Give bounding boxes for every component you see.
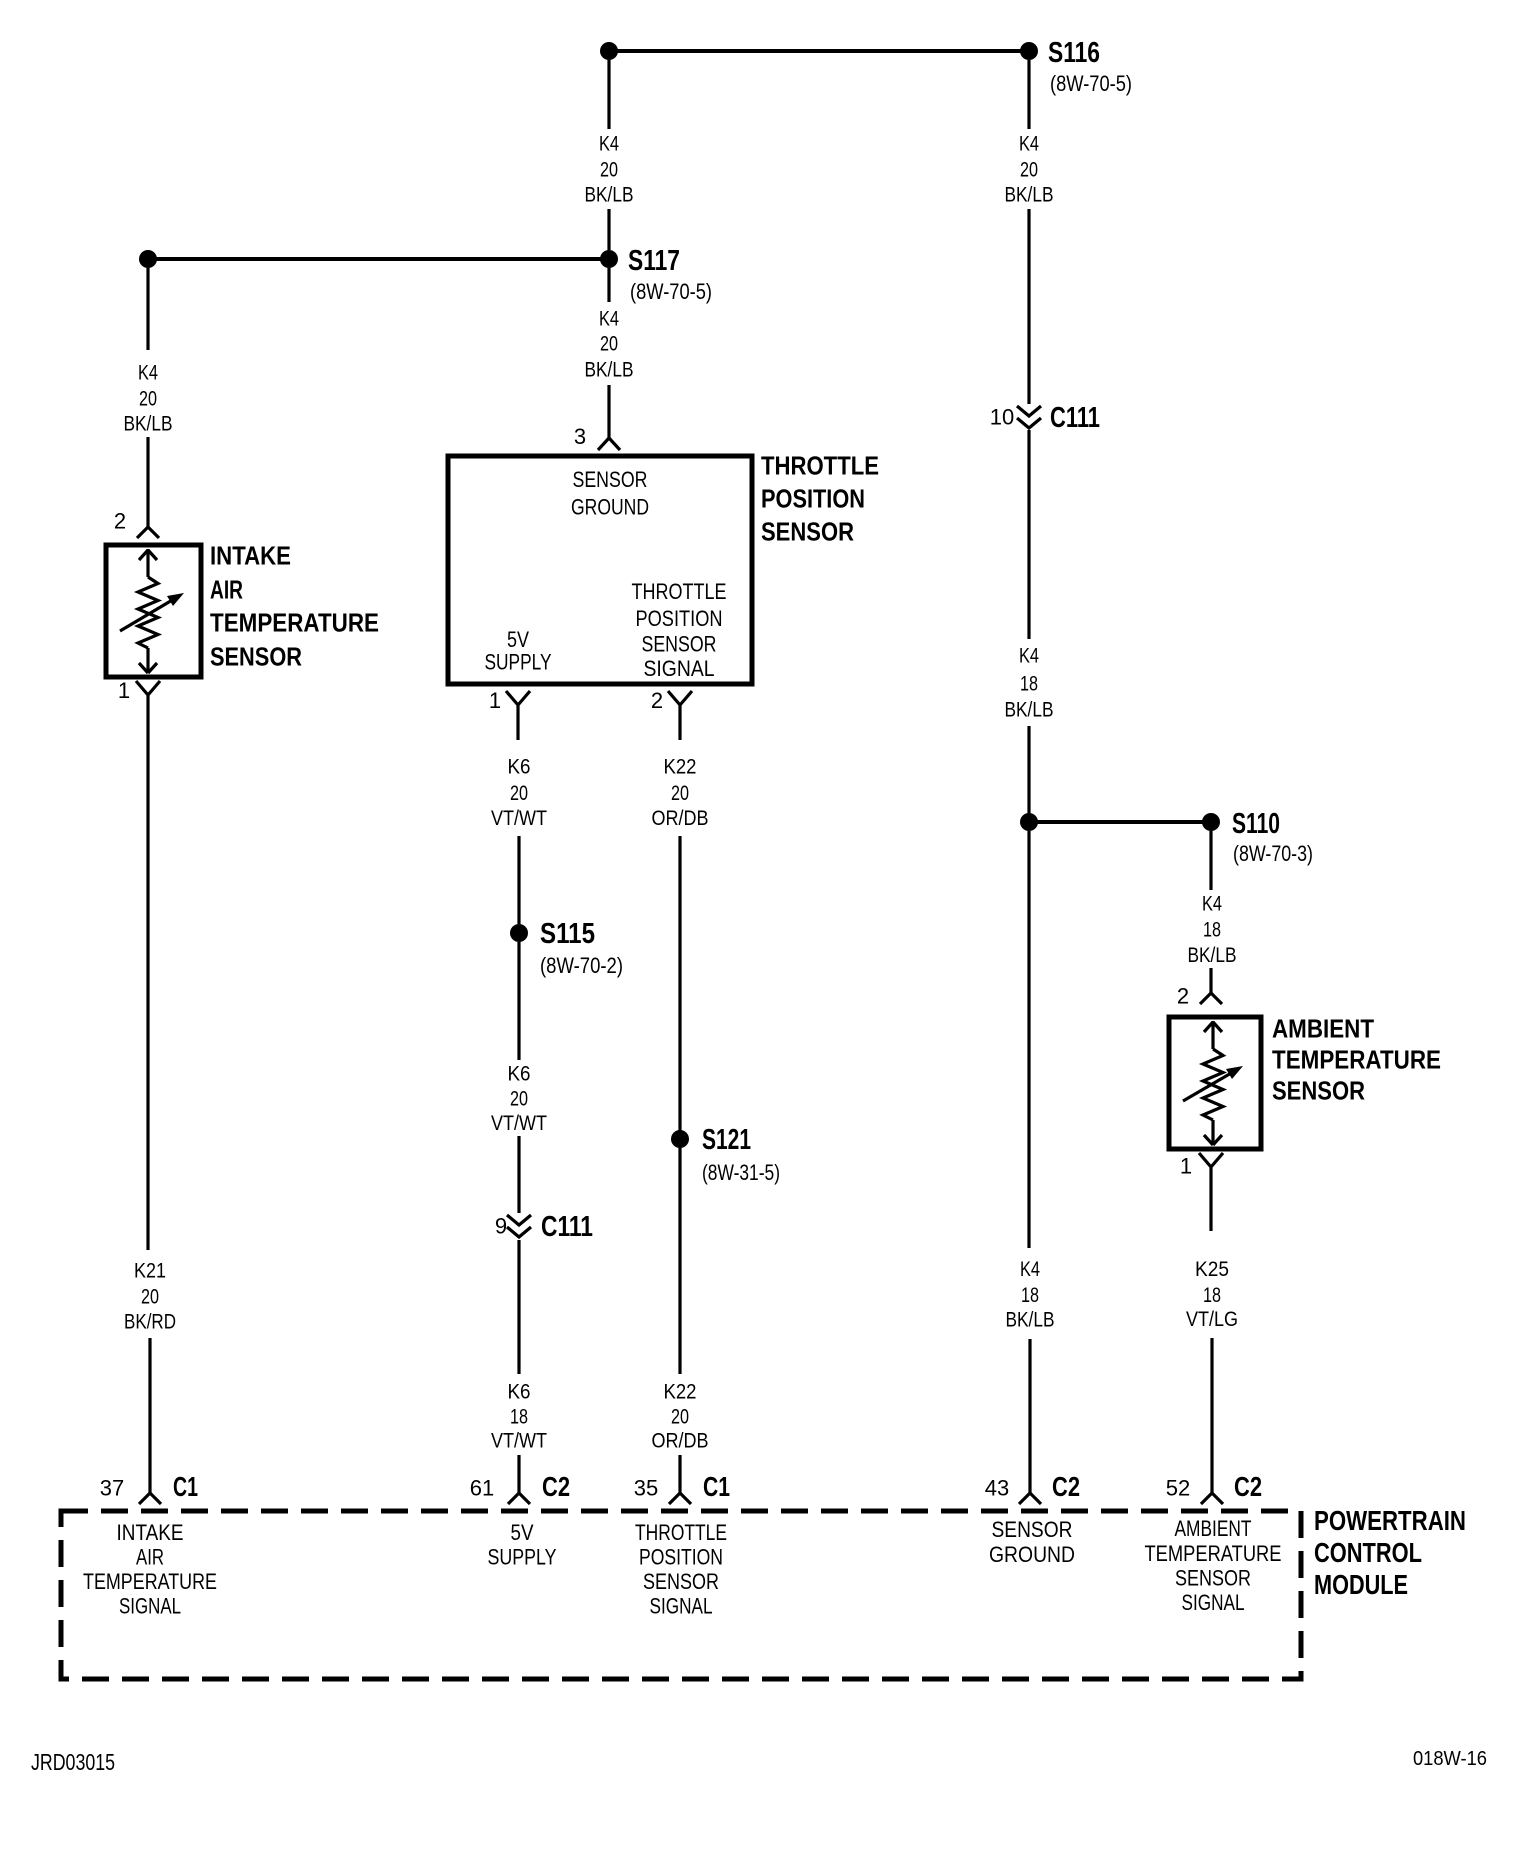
pin 2 connector (male half) at IAT sensor [137, 527, 159, 538]
svg-text:20: 20 [510, 782, 528, 805]
wire: segment into PCM cavity 61 [517, 1455, 520, 1493]
svg-text:S121: S121 [702, 1124, 751, 1156]
svg-text:18: 18 [1203, 919, 1221, 942]
svg-text:18: 18 [1021, 1284, 1039, 1307]
node S110 junction dot [1202, 813, 1220, 831]
svg-text:(8W-70-5): (8W-70-5) [630, 279, 712, 304]
thermistor element (ambient): top lead with up arrow [1204, 1021, 1222, 1049]
pin label 5V SUPPLY (inside box) [485, 627, 552, 675]
svg-text:20: 20 [141, 1286, 159, 1309]
value label K6 20 VT/WT (lower) [491, 1063, 547, 1136]
value label K25 18 VT/LG [1186, 1258, 1238, 1331]
node S117 junction dot [600, 250, 618, 268]
svg-text:20: 20 [600, 333, 618, 356]
svg-text:18: 18 [1203, 1284, 1221, 1307]
svg-text:10: 10 [990, 405, 1014, 430]
svg-text:S115: S115 [540, 918, 595, 950]
svg-text:18: 18 [510, 1406, 528, 1429]
wire: segment from C111 toward PCM cavity 61 [517, 1240, 520, 1374]
svg-text:JRD03015: JRD03015 [31, 1749, 115, 1775]
svg-text:K4: K4 [599, 133, 619, 156]
svg-text:POSITION: POSITION [639, 1545, 723, 1570]
svg-text:C2: C2 [542, 1471, 570, 1502]
pin 3 connector (male half) at TPS [598, 438, 620, 450]
component: powertrain control module (dashed box) [61, 1511, 1301, 1679]
svg-text:2: 2 [651, 688, 663, 713]
svg-text:SIGNAL: SIGNAL [1182, 1590, 1245, 1615]
svg-text:018W-16: 018W-16 [1413, 1748, 1487, 1770]
wire: S117 horizontal bus [148, 257, 609, 261]
svg-text:5V: 5V [511, 1520, 534, 1545]
svg-text:SENSOR: SENSOR [1272, 1076, 1365, 1106]
svg-text:SIGNAL: SIGNAL [650, 1594, 713, 1619]
wire: segment below S115 [517, 942, 520, 1060]
svg-text:OR/DB: OR/DB [652, 1430, 709, 1453]
svg-text:THROTTLE: THROTTLE [761, 451, 879, 481]
node: junction dot on sensor ground line [1020, 813, 1038, 831]
wire: 5V supply segment to S115 [517, 836, 520, 924]
pin label THROTTLE POSITION SENSOR SIGNAL (inside box) [632, 579, 727, 681]
pin 1 connector (female Y) at TPS bottom [506, 691, 530, 740]
pin label THROTTLE POSITION SENSOR SIGNAL (PCM) [635, 1520, 727, 1619]
svg-text:C2: C2 [1234, 1471, 1262, 1502]
value label K4 20 BK/LB (right top) [1005, 133, 1054, 207]
svg-text:AMBIENT: AMBIENT [1175, 1516, 1252, 1541]
svg-text:K4: K4 [1019, 133, 1039, 156]
svg-text:GROUND: GROUND [989, 1542, 1075, 1567]
wire: segment into S110 branch junction [1027, 726, 1030, 814]
svg-text:18: 18 [1020, 673, 1038, 696]
thermistor element (ambient): zigzag resistor body [1203, 1049, 1223, 1120]
value label K22 20 OR/DB (lower) [652, 1381, 709, 1453]
svg-text:9: 9 [495, 1214, 507, 1239]
svg-text:TEMPERATURE: TEMPERATURE [1145, 1541, 1282, 1566]
svg-text:OR/DB: OR/DB [652, 807, 709, 830]
svg-text:(8W-31-5): (8W-31-5) [702, 1160, 780, 1185]
svg-text:POSITION: POSITION [636, 606, 723, 631]
pin connector (male half) at PCM cavity 35 [669, 1493, 691, 1504]
svg-text:C1: C1 [703, 1471, 730, 1502]
pin 2 connector (male half) at ambient sensor [1200, 993, 1222, 1004]
svg-text:SENSOR: SENSOR [1175, 1566, 1251, 1591]
svg-text:SENSOR: SENSOR [210, 642, 302, 672]
svg-text:GROUND: GROUND [571, 495, 649, 520]
svg-text:(8W-70-5): (8W-70-5) [1050, 71, 1132, 96]
wire: sensor ground segment to PCM cavity 43 [1027, 831, 1030, 1248]
svg-text:20: 20 [510, 1088, 528, 1111]
wire: top bus from splice S117 branch to S116 [609, 49, 1029, 53]
svg-text:S110: S110 [1232, 808, 1280, 840]
svg-text:K22: K22 [664, 1381, 697, 1404]
svg-text:BK/LB: BK/LB [124, 413, 173, 436]
svg-text:AMBIENT: AMBIENT [1272, 1014, 1374, 1044]
wire: segment below S117 [607, 268, 610, 302]
svg-text:VT/LG: VT/LG [1186, 1308, 1238, 1331]
wire: S110 horizontal bus [1029, 820, 1211, 824]
svg-text:20: 20 [671, 1406, 689, 1429]
thermistor element (ambient): bottom lead with down arrow [1204, 1120, 1222, 1145]
svg-text:43: 43 [985, 1476, 1009, 1501]
component title INTAKE AIR TEMPERATURE SENSOR [210, 541, 379, 672]
wire: segment to C111 pin 9 [517, 1136, 520, 1213]
svg-text:TEMPERATURE: TEMPERATURE [83, 1569, 217, 1594]
pin label 5V SUPPLY (PCM) [488, 1520, 557, 1570]
svg-text:INTAKE: INTAKE [210, 541, 291, 571]
pin 1 connector (female Y) at ambient sensor [1199, 1153, 1223, 1231]
svg-text:K4: K4 [1020, 1258, 1040, 1281]
value label K4 18 BK/LB (right middle) [1005, 645, 1054, 722]
wire: segment to C111 pin 10 [1027, 209, 1030, 404]
svg-text:20: 20 [1020, 159, 1038, 182]
wire: segment below C111 [1027, 430, 1030, 639]
value label K4 20 BK/LB (upper middle) [585, 133, 634, 207]
svg-text:TEMPERATURE: TEMPERATURE [210, 608, 379, 638]
svg-text:20: 20 [139, 388, 157, 411]
svg-text:SUPPLY: SUPPLY [488, 1545, 557, 1570]
svg-text:SENSOR: SENSOR [761, 517, 854, 547]
svg-text:SIGNAL: SIGNAL [119, 1594, 181, 1619]
svg-text:20: 20 [600, 159, 618, 182]
wire: segment below S116 [1027, 60, 1030, 129]
svg-text:1: 1 [1180, 1154, 1192, 1179]
component: ambient temperature sensor box [1169, 1017, 1261, 1149]
svg-text:K4: K4 [1019, 645, 1039, 668]
svg-text:POWERTRAIN: POWERTRAIN [1314, 1505, 1466, 1536]
svg-text:S116: S116 [1048, 37, 1100, 69]
pin connector (male half) at PCM cavity 43 [1019, 1493, 1041, 1504]
svg-text:BK/LB: BK/LB [1005, 184, 1054, 207]
node S116 junction dot [1020, 42, 1038, 60]
svg-text:2: 2 [114, 509, 126, 534]
svg-text:37: 37 [100, 1476, 124, 1501]
svg-text:(8W-70-3): (8W-70-3) [1233, 841, 1313, 866]
svg-text:2: 2 [1177, 984, 1189, 1009]
wire: segment into PCM cavity 52 [1210, 1338, 1213, 1493]
svg-text:THROTTLE: THROTTLE [632, 579, 727, 604]
svg-text:BK/LB: BK/LB [585, 184, 634, 207]
svg-text:K4: K4 [599, 308, 619, 331]
svg-text:S117: S117 [628, 245, 680, 277]
wire: segment into PCM cavity 37 [148, 1338, 151, 1493]
svg-text:(8W-70-2): (8W-70-2) [540, 953, 623, 978]
svg-text:1: 1 [489, 688, 501, 713]
svg-text:SIGNAL: SIGNAL [644, 656, 715, 681]
svg-text:BK/LB: BK/LB [1006, 1309, 1055, 1332]
pin 1 connector (female Y) at IAT sensor [136, 681, 160, 1250]
node S115 junction dot [510, 924, 528, 942]
svg-text:SENSOR: SENSOR [573, 467, 648, 492]
wire: TPS signal segment through S121 [678, 836, 681, 1374]
value label K6 20 VT/WT (upper) [491, 756, 547, 831]
pin label INTAKE AIR TEMPERATURE SIGNAL [83, 1520, 217, 1619]
svg-text:BK/RD: BK/RD [124, 1311, 176, 1334]
component: throttle position sensor box [448, 456, 752, 684]
connector C111 pin 10 (inline double chevron) [1017, 406, 1041, 428]
svg-text:THROTTLE: THROTTLE [635, 1520, 727, 1545]
value label K21 20 BK/RD [124, 1260, 176, 1334]
pin label SENSOR GROUND (PCM) [989, 1517, 1075, 1567]
svg-text:SENSOR: SENSOR [643, 1569, 719, 1594]
svg-text:MODULE: MODULE [1314, 1569, 1408, 1600]
value label K22 20 OR/DB (upper) [652, 756, 709, 831]
pin 2 connector (female Y) at TPS bottom [668, 691, 692, 740]
svg-text:SENSOR: SENSOR [992, 1517, 1073, 1542]
svg-text:AIR: AIR [136, 1545, 164, 1570]
svg-text:3: 3 [574, 424, 586, 449]
component title POWERTRAIN CONTROL MODULE [1314, 1505, 1466, 1600]
svg-text:K6: K6 [508, 1381, 531, 1404]
wire: segment to IAT sensor pin 2 [146, 437, 149, 527]
node: junction dot left end of top bus [600, 42, 618, 60]
svg-text:5V: 5V [507, 627, 529, 652]
svg-text:K4: K4 [1202, 893, 1222, 916]
svg-text:C111: C111 [1050, 402, 1100, 434]
svg-text:K6: K6 [508, 756, 531, 779]
node S121 junction dot [671, 1130, 689, 1148]
thermistor element (ambient): variable arrow [1183, 1072, 1233, 1101]
svg-text:20: 20 [671, 782, 689, 805]
svg-text:61: 61 [470, 1476, 494, 1501]
svg-text:CONTROL: CONTROL [1314, 1537, 1422, 1568]
wire: segment into splice S117 [607, 209, 610, 250]
svg-text:SENSOR: SENSOR [642, 632, 717, 657]
value label K4 20 BK/LB (above TPS pin 3) [585, 308, 634, 382]
svg-text:SUPPLY: SUPPLY [485, 650, 552, 675]
pin connector (male half) at PCM cavity 37 [139, 1493, 161, 1504]
svg-text:K25: K25 [1195, 1258, 1229, 1281]
svg-text:C2: C2 [1052, 1471, 1080, 1502]
pin label AMBIENT TEMPERATURE SENSOR SIGNAL (PCM) [1145, 1516, 1282, 1615]
svg-text:35: 35 [634, 1476, 658, 1501]
svg-text:K4: K4 [138, 362, 158, 385]
connector C111 pin 9 (inline double chevron) [507, 1215, 531, 1237]
svg-text:BK/LB: BK/LB [585, 359, 634, 382]
svg-text:AIR: AIR [210, 575, 243, 605]
svg-text:VT/WT: VT/WT [491, 807, 547, 830]
wire: segment to TPS pin 3 [607, 385, 610, 438]
thermistor element (IAT): top lead with up arrow [139, 549, 157, 577]
svg-text:K21: K21 [134, 1260, 166, 1283]
wire: segment to ambient sensor pin 2 [1209, 968, 1212, 993]
value label K4 18 BK/LB (right bottom) [1006, 1258, 1055, 1332]
wire: segment into PCM cavity 35 [678, 1455, 681, 1493]
wire: IAT branch segment below S117 bus [146, 268, 149, 350]
svg-text:POSITION: POSITION [761, 484, 865, 514]
wire: segment below S110 [1209, 831, 1212, 890]
thermistor element (IAT): zigzag resistor body [138, 577, 158, 648]
svg-text:VT/WT: VT/WT [491, 1112, 547, 1135]
pin label SENSOR GROUND [571, 467, 649, 520]
svg-text:K6: K6 [508, 1063, 531, 1086]
svg-text:52: 52 [1166, 1476, 1190, 1501]
svg-text:C111: C111 [541, 1211, 593, 1243]
svg-text:1: 1 [118, 678, 130, 703]
value label K4 20 BK/LB (IAT branch) [124, 362, 173, 436]
svg-text:K22: K22 [664, 756, 697, 779]
svg-text:TEMPERATURE: TEMPERATURE [1272, 1045, 1441, 1075]
thermistor element (IAT): bottom lead with down arrow [139, 648, 157, 673]
pin connector (male half) at PCM cavity 52 [1201, 1493, 1223, 1504]
component title AMBIENT TEMPERATURE SENSOR [1272, 1014, 1441, 1106]
node: junction dot left end of S117 bus [139, 250, 157, 268]
component title THROTTLE POSITION SENSOR [761, 451, 879, 547]
pin connector (male half) at PCM cavity 61 [508, 1493, 530, 1504]
component: intake air temperature sensor box [106, 545, 201, 677]
value label K6 18 VT/WT [491, 1381, 547, 1453]
svg-text:BK/LB: BK/LB [1188, 944, 1237, 967]
thermistor element (IAT): variable arrow [120, 599, 174, 631]
value label K4 18 BK/LB (ambient branch) [1188, 893, 1237, 968]
svg-text:BK/LB: BK/LB [1005, 699, 1054, 722]
wire: segment below left top dot (net K4 to S117) [607, 60, 610, 129]
wire: segment into PCM cavity 43 [1028, 1339, 1031, 1493]
svg-text:VT/WT: VT/WT [491, 1430, 547, 1453]
svg-text:INTAKE: INTAKE [117, 1520, 184, 1545]
svg-text:C1: C1 [173, 1471, 198, 1502]
